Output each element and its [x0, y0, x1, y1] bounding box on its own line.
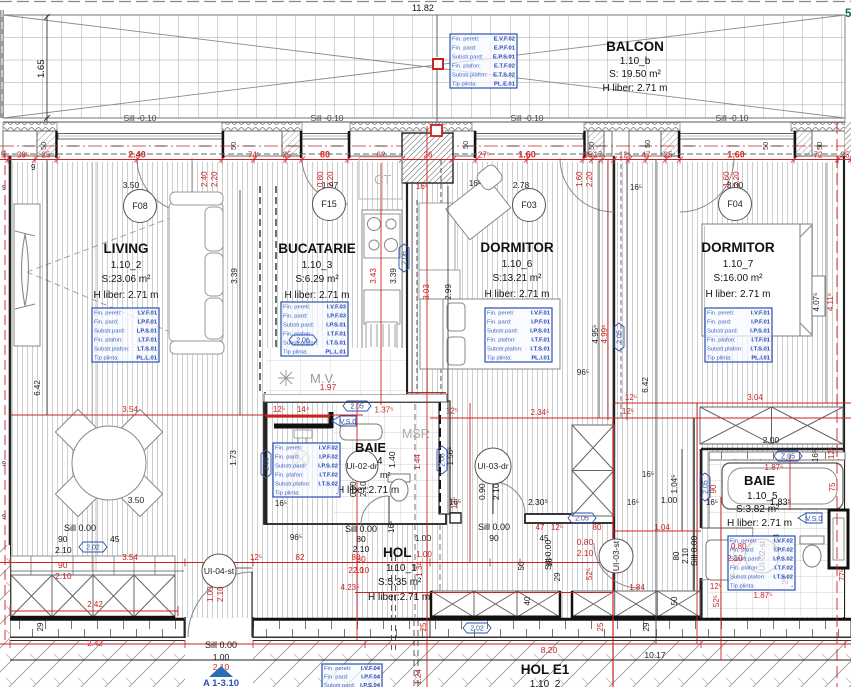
- door arc dorm6 entry: [493, 482, 525, 514]
- svg-text:3.39: 3.39: [389, 268, 398, 284]
- svg-text:PL.E.01: PL.E.01: [494, 81, 516, 87]
- MSR/dorm6 wall: [439, 401, 450, 514]
- svg-text:47: 47: [642, 151, 651, 160]
- room label HOL: [368, 545, 430, 603]
- svg-text:Tip plinta:: Tip plinta:: [730, 583, 755, 589]
- svg-text:I.P.S.01: I.P.S.01: [326, 322, 347, 328]
- MV tile floor: [266, 348, 406, 394]
- svg-text:I.P.S.04: I.P.S.04: [360, 683, 381, 687]
- svg-text:16⁵: 16⁵: [416, 182, 428, 191]
- svg-text:PL.I.01: PL.I.01: [751, 355, 770, 361]
- svg-text:2.05: 2.05: [617, 330, 624, 344]
- tv: [22, 234, 29, 306]
- svg-text:Fin. plafon:: Fin. plafon:: [452, 63, 481, 69]
- svg-text:12⁵: 12⁵: [619, 151, 631, 160]
- window tag F04: [719, 188, 752, 221]
- red line kitchen bottom: [264, 392, 446, 394]
- svg-text:I.P.S.02: I.P.S.02: [773, 556, 793, 562]
- svg-text:2.10: 2.10: [491, 483, 501, 500]
- svg-text:1.73: 1.73: [229, 450, 238, 466]
- dorm6 bottom wall: [450, 512, 461, 514]
- window tag F03: [513, 189, 546, 222]
- svg-text:25: 25: [419, 622, 428, 631]
- svg-text:3.39: 3.39: [230, 268, 239, 284]
- svg-text:2.10: 2.10: [216, 586, 225, 602]
- svg-text:0.90: 0.90: [477, 483, 487, 500]
- svg-text:2.05: 2.05: [350, 404, 364, 411]
- svg-text:S:23.06 m²: S:23.06 m²: [102, 274, 152, 285]
- svg-text:12⁵: 12⁵: [710, 582, 722, 591]
- kitchen counter: [362, 210, 402, 357]
- wardrobe left (living) top row: [11, 556, 175, 575]
- room label BAIE 4: [337, 440, 399, 496]
- window projection lines living: [91, 162, 93, 571]
- exterior ground hatch bottom: [0, 641, 851, 687]
- svg-text:50: 50: [761, 142, 770, 150]
- insulation strips: [3, 123, 57, 132]
- dining table + chairs: [55, 409, 162, 516]
- baie5 toilet: [800, 536, 824, 567]
- svg-text:H liber: 2.71 m: H liber: 2.71 m: [727, 518, 792, 529]
- svg-text:LV.F.01: LV.F.01: [138, 310, 158, 316]
- svg-text:E.P.S.01: E.P.S.01: [493, 54, 516, 60]
- tv view cone dashed: [27, 205, 218, 352]
- svg-text:52⁵: 52⁵: [712, 595, 721, 607]
- svg-text:Fin. pard:: Fin. pard:: [487, 319, 512, 325]
- svg-text:H liber: 2.71 m: H liber: 2.71 m: [602, 83, 667, 94]
- windows glazing: [58, 134, 222, 140]
- svg-text:Fin. plafon:: Fin. plafon:: [707, 337, 736, 343]
- svg-text:I.T.S.02: I.T.S.02: [773, 574, 793, 580]
- svg-text:52⁵: 52⁵: [585, 568, 594, 580]
- door tag UI-04-st: [202, 554, 236, 588]
- svg-text:H liber:2.71 m: H liber:2.71 m: [368, 592, 430, 603]
- svg-text:16⁵: 16⁵: [811, 450, 820, 462]
- svg-text:3.54: 3.54: [122, 405, 138, 414]
- svg-text:1.10_3: 1.10_3: [302, 260, 333, 271]
- svg-text:16⁵: 16⁵: [469, 179, 481, 188]
- svg-text:I.T.F.01: I.T.F.01: [327, 331, 346, 337]
- svg-text:E.T.S.02: E.T.S.02: [493, 72, 515, 78]
- dim 1.65 vertical: [46, 15, 48, 122]
- svg-text:Substr.plafon:: Substr.plafon:: [487, 346, 523, 352]
- svg-text:45: 45: [110, 534, 120, 544]
- svg-text:I.V.F.03: I.V.F.03: [327, 304, 347, 310]
- svg-text:I.V.F.02: I.V.F.02: [319, 445, 338, 451]
- svg-text:I.P.S.01: I.P.S.01: [750, 328, 771, 334]
- room label BUCATARIE: [278, 241, 356, 301]
- svg-text:5: 5: [845, 8, 851, 20]
- svg-text:Substr.pard:: Substr.pard:: [487, 328, 519, 334]
- svg-text:1.10_7: 1.10_7: [723, 259, 754, 270]
- svg-text:1.65: 1.65: [36, 60, 47, 79]
- svg-text:74⁵: 74⁵: [248, 151, 260, 160]
- svg-text:25: 25: [664, 151, 673, 160]
- svg-text:Substr.pard:: Substr.pard:: [707, 328, 739, 334]
- svg-text:25: 25: [841, 151, 850, 160]
- door arc dorm7 balcony: [680, 158, 734, 212]
- svg-text:Substr.pard:: Substr.pard:: [275, 463, 307, 469]
- living finish table: [92, 308, 159, 362]
- center marker red square: [436, 15, 438, 57]
- svg-text:75: 75: [828, 482, 837, 491]
- svg-text:Fin. pard:: Fin. pard:: [275, 454, 300, 460]
- svg-text:I.T.F.01: I.T.F.01: [751, 337, 770, 343]
- svg-text:2.42: 2.42: [87, 639, 103, 648]
- svg-text:A 1-3.10: A 1-3.10: [203, 678, 239, 687]
- entry triangle marker: [209, 666, 233, 677]
- svg-text:40: 40: [523, 596, 532, 605]
- svg-text:90: 90: [58, 560, 68, 570]
- svg-text:HOL: HOL: [383, 545, 412, 560]
- svg-text:I.T.S.01: I.T.S.01: [326, 340, 346, 346]
- svg-text:3.50: 3.50: [123, 180, 140, 190]
- door tag UI-03-dr: [475, 448, 511, 484]
- svg-text:I.T.F.02: I.T.F.02: [774, 565, 793, 571]
- wardrobe dorm7 bottom: [700, 407, 843, 444]
- svg-text:S: 19.50 m²: S: 19.50 m²: [609, 69, 661, 80]
- left exterior wall: [9, 156, 12, 618]
- svg-text:50: 50: [670, 596, 679, 605]
- svg-text:S:13.21 m²: S:13.21 m²: [493, 273, 543, 284]
- door arcs living balcony (double): [137, 158, 192, 213]
- svg-text:H liber:2.71 m: H liber:2.71 m: [337, 485, 399, 496]
- svg-text:I.P.F.03: I.P.F.03: [327, 313, 347, 319]
- svg-text:1.87⁵: 1.87⁵: [754, 591, 773, 600]
- svg-text:12⁵: 12⁵: [551, 523, 563, 532]
- svg-text:Substr.plafon:: Substr.plafon:: [730, 574, 766, 580]
- floor hatch all rooms: [11, 162, 838, 618]
- svg-text:LP.S.01: LP.S.01: [137, 328, 158, 334]
- svg-text:4: 4: [377, 456, 383, 467]
- svg-text:1.44: 1.44: [413, 454, 422, 470]
- baie4 floor drain: [293, 451, 309, 467]
- svg-text:2.40: 2.40: [128, 150, 146, 160]
- svg-text:25: 25: [596, 622, 605, 631]
- vertical red construction lines: [5, 122, 837, 687]
- svg-text:1.60: 1.60: [518, 150, 536, 160]
- svg-text:1.97: 1.97: [320, 382, 337, 392]
- svg-text:I.V.F.01: I.V.F.01: [531, 310, 551, 316]
- svg-text:Sill 0.00: Sill 0.00: [205, 640, 237, 650]
- svg-text:2.02: 2.02: [470, 626, 484, 633]
- svg-text:MSR: MSR: [402, 427, 430, 441]
- svg-text:Fin. pard:: Fin. pard:: [452, 45, 477, 51]
- svg-text:80: 80: [356, 534, 366, 544]
- svg-text:PL.L.01: PL.L.01: [136, 355, 157, 361]
- svg-text:I.P.F.02: I.P.F.02: [319, 454, 338, 460]
- svg-text:16⁵: 16⁵: [642, 470, 654, 479]
- vertical black dim lines: [47, 160, 682, 687]
- wardrobe hol right 2: [572, 591, 700, 617]
- svg-text:Fin. pereti:: Fin. pereti:: [487, 310, 515, 316]
- svg-text:BALCON: BALCON: [606, 39, 664, 54]
- svg-text:3.50: 3.50: [128, 495, 145, 505]
- svg-text:77⁵: 77⁵: [838, 569, 847, 581]
- svg-text:2.10: 2.10: [353, 565, 370, 575]
- room label DORMITOR 7: [701, 240, 774, 300]
- svg-text:50: 50: [517, 561, 526, 570]
- svg-text:Z.05: Z.05: [781, 454, 795, 461]
- svg-text:16⁵: 16⁵: [275, 499, 287, 508]
- svg-text:Substr.pard:: Substr.pard:: [324, 683, 356, 687]
- kitchen drawers: [366, 322, 397, 349]
- svg-text:PL.L.01: PL.L.01: [325, 349, 346, 355]
- baie4 tile floor: [334, 403, 446, 523]
- svg-text:10.17: 10.17: [644, 650, 666, 660]
- dorm7 bed: [702, 224, 825, 336]
- baie5 bathtub: [722, 463, 843, 509]
- door arc kitchen balcony: [302, 158, 348, 204]
- svg-text:H liber: 2.71 m: H liber: 2.71 m: [705, 289, 770, 300]
- top border dashed line: [0, 1, 851, 3]
- svg-text:3.03: 3.03: [422, 284, 431, 300]
- svg-text:Fin. pereti:: Fin. pereti:: [452, 36, 480, 42]
- svg-text:LP.F.01: LP.F.01: [138, 319, 158, 325]
- svg-text:Sill 0.00: Sill 0.00: [345, 524, 377, 534]
- svg-text:-: -: [791, 583, 793, 589]
- svg-text:1.10_b: 1.10_b: [620, 56, 651, 67]
- svg-text:Substr.plafon:: Substr.plafon:: [452, 72, 488, 78]
- svg-text:Sill 0.00: Sill 0.00: [64, 523, 96, 533]
- svg-text:29: 29: [642, 622, 651, 631]
- svg-text:Substr.plafon:: Substr.plafon:: [275, 481, 311, 487]
- svg-text:72: 72: [814, 151, 823, 160]
- svg-text:1.40: 1.40: [387, 451, 397, 468]
- sofa living: [169, 192, 224, 354]
- svg-text:I.T.F.02: I.T.F.02: [319, 472, 338, 478]
- svg-text:16⁵: 16⁵: [627, 498, 639, 507]
- entry porch gap: [185, 620, 253, 687]
- svg-text:2.10: 2.10: [55, 545, 72, 555]
- room label BAIE 5: [727, 473, 792, 529]
- svg-text:Fin. plafon:: Fin. plafon:: [94, 337, 123, 343]
- hatched pier blocks: [37, 131, 57, 156]
- svg-text:BAIE: BAIE: [744, 473, 775, 488]
- svg-text:3.54: 3.54: [122, 553, 138, 562]
- svg-text:Fin. plafon:: Fin. plafon:: [730, 565, 759, 571]
- svg-text:UI-04-st: UI-04-st: [204, 566, 235, 576]
- svg-text:2.02: 2.02: [86, 545, 100, 552]
- svg-text:6.42: 6.42: [641, 377, 650, 393]
- svg-text:1.37⁵: 1.37⁵: [375, 406, 394, 415]
- baie4 shower corner thick: [274, 424, 332, 429]
- svg-text:1.04⁵: 1.04⁵: [670, 475, 679, 494]
- svg-text:-: -: [336, 490, 338, 496]
- svg-text:Substr.pard:: Substr.pard:: [94, 328, 126, 334]
- svg-text:Substr.plafon:: Substr.plafon:: [707, 346, 743, 352]
- svg-text:29: 29: [36, 622, 45, 631]
- svg-text:Tip plinta:: Tip plinta:: [275, 490, 300, 496]
- svg-text:3.04: 3.04: [747, 393, 763, 402]
- svg-text:80: 80: [593, 523, 602, 532]
- svg-text:25: 25: [283, 151, 292, 160]
- svg-text:2.10: 2.10: [359, 481, 368, 497]
- door tag UI-03-st: [599, 539, 633, 573]
- window tag F15: [313, 188, 346, 221]
- baie4 toilet: [388, 474, 410, 501]
- svg-text:2.06: 2.06: [440, 453, 447, 467]
- svg-text:m²: m²: [380, 470, 391, 480]
- dorm6 bed: [420, 299, 560, 369]
- svg-text:I.P.F.02: I.P.F.02: [774, 547, 793, 553]
- svg-text:E.P.F.01: E.P.F.01: [494, 45, 516, 51]
- svg-text:80: 80: [356, 554, 366, 564]
- svg-text:1.24: 1.24: [414, 669, 423, 685]
- baie4 fixtures top: [294, 430, 312, 444]
- svg-text:UI-02-dr: UI-02-dr: [346, 461, 377, 471]
- svg-text:25: 25: [42, 151, 51, 160]
- right exterior wall: [843, 156, 845, 627]
- svg-text:80: 80: [672, 551, 681, 560]
- svg-text:I.V.F.01: I.V.F.01: [751, 310, 771, 316]
- MSR partition dashed: [414, 404, 416, 523]
- svg-text:H liber: 2.71 m: H liber: 2.71 m: [284, 290, 349, 301]
- svg-text:I.T.F.01: I.T.F.01: [531, 337, 550, 343]
- svg-text:HOL E1: HOL E1: [521, 662, 570, 677]
- svg-text:47: 47: [536, 523, 545, 532]
- svg-text:2.10: 2.10: [353, 544, 370, 554]
- svg-text:LT.S.01: LT.S.01: [137, 346, 157, 352]
- svg-text:Fin. pard:: Fin. pard:: [283, 313, 308, 319]
- svg-text:Fin. plafon:: Fin. plafon:: [283, 331, 312, 337]
- baie5 door leaf+arc: [701, 527, 753, 529]
- svg-text:E.V.F.02: E.V.F.02: [494, 36, 515, 42]
- top exterior wall band: [0, 122, 851, 160]
- wall piers: [3, 131, 57, 156]
- svg-text:96⁵: 96⁵: [577, 368, 589, 377]
- dorm6 desk tilted: [441, 163, 521, 240]
- door arc baie5 entry: [594, 543, 639, 588]
- svg-text:Substr.plafon:: Substr.plafon:: [94, 346, 130, 352]
- window tag F08: [124, 190, 157, 223]
- svg-text:3.43: 3.43: [369, 268, 378, 284]
- svg-text:2.10: 2.10: [577, 548, 594, 558]
- svg-text:UI-03-dr: UI-03-dr: [477, 461, 508, 471]
- door arc dorm6 balcony: [560, 158, 614, 212]
- svg-text:16⁵: 16⁵: [449, 498, 461, 507]
- svg-text:I.T.S.01: I.T.S.01: [750, 346, 770, 352]
- svg-text:2.00: 2.00: [763, 435, 780, 445]
- svg-text:12⁵: 12⁵: [273, 405, 285, 414]
- svg-text:12⁵: 12⁵: [622, 407, 634, 416]
- svg-text:16⁵: 16⁵: [387, 521, 396, 533]
- kitchen cabinet mid: [364, 290, 400, 324]
- svg-text:I.P.S.01: I.P.S.01: [530, 328, 551, 334]
- svg-text:2.34⁵: 2.34⁵: [531, 408, 550, 417]
- bottom double lines: [0, 637, 851, 639]
- baie5 sink: [706, 540, 734, 580]
- svg-text:LIVING: LIVING: [103, 241, 148, 256]
- svg-text:Tip plinta:: Tip plinta:: [452, 81, 477, 87]
- svg-text:V.S.0: V.S.0: [806, 516, 823, 523]
- svg-text:Fin. pereti:: Fin. pereti:: [283, 304, 311, 310]
- svg-text:F08: F08: [132, 201, 148, 211]
- svg-text:I.P.F.01: I.P.F.01: [751, 319, 771, 325]
- hol finish table bottom: [322, 664, 382, 690]
- window jamb marks: [57, 131, 796, 158]
- svg-text:Fin. pereti:: Fin. pereti:: [94, 310, 122, 316]
- svg-text:4.99⁶: 4.99⁶: [600, 325, 609, 344]
- svg-text:1.04: 1.04: [654, 523, 670, 532]
- left door dims living-hol: [55, 523, 120, 555]
- svg-text:1.00: 1.00: [661, 495, 678, 505]
- red dim line y415/418: [10, 414, 363, 416]
- svg-text:2.20: 2.20: [210, 171, 219, 187]
- svg-text:F04: F04: [727, 199, 743, 209]
- star symbol M.V.: [278, 370, 294, 386]
- bottom exterior wall masonry: [10, 620, 184, 637]
- svg-text:2.40: 2.40: [200, 171, 209, 187]
- svg-text:0.80: 0.80: [577, 537, 594, 547]
- baie5 tile floor: [709, 455, 844, 617]
- balcony diagonals: [3, 15, 845, 118]
- wardrobe hol right 1: [431, 591, 560, 617]
- svg-text:H liber: 2.71 m: H liber: 2.71 m: [484, 289, 549, 300]
- svg-text:1.60: 1.60: [727, 150, 745, 160]
- svg-text:2.10: 2.10: [55, 571, 72, 581]
- svg-text:16⁵: 16⁵: [630, 183, 642, 192]
- svg-text:2.06: 2.06: [296, 338, 310, 345]
- svg-text:S:6.29 m²: S:6.29 m²: [295, 274, 339, 285]
- svg-text:I.T.S.02: I.T.S.02: [318, 481, 338, 487]
- dorm7 finish table: [705, 308, 772, 362]
- svg-text:90: 90: [489, 533, 499, 543]
- svg-text:1.84: 1.84: [629, 583, 645, 592]
- svg-text:2.06: 2.06: [402, 251, 409, 265]
- baie4 finish table: [273, 443, 340, 497]
- svg-text:2.99: 2.99: [444, 284, 453, 300]
- svg-text:1.00: 1.00: [415, 533, 432, 543]
- stove: [364, 214, 400, 258]
- svg-text:Fin. pard:: Fin. pard:: [707, 319, 732, 325]
- svg-text:Fin. pereti:: Fin. pereti:: [324, 666, 352, 672]
- svg-text:Tip plinta:: Tip plinta:: [707, 355, 732, 361]
- shaft hatched block: [402, 133, 453, 183]
- svg-text:29: 29: [553, 572, 562, 581]
- svg-text:4.95⁵: 4.95⁵: [591, 325, 600, 344]
- wall axis line: [0, 145, 851, 147]
- red dim line y563: [0, 562, 612, 564]
- svg-text:1.60: 1.60: [575, 171, 584, 187]
- svg-text:DORMITOR: DORMITOR: [480, 240, 553, 255]
- right edge hatch strip: [845, 122, 851, 160]
- hol dashed projections: [414, 524, 416, 617]
- svg-text:12⁵: 12⁵: [827, 447, 836, 459]
- svg-text:Sill 0.00: Sill 0.00: [689, 535, 699, 566]
- svg-text:2.10: 2.10: [727, 554, 743, 563]
- svg-text:50: 50: [39, 142, 48, 150]
- svg-text:11.82: 11.82: [412, 3, 434, 13]
- svg-text:80: 80: [320, 150, 330, 160]
- baie4 outer walls: [264, 402, 446, 524]
- svg-text:1.00: 1.00: [206, 586, 215, 602]
- svg-text:9: 9: [31, 163, 36, 172]
- svg-text:PL.I.01: PL.I.01: [531, 355, 550, 361]
- svg-text:F15: F15: [321, 199, 337, 209]
- svg-text:62: 62: [377, 151, 386, 160]
- svg-text:2.42: 2.42: [87, 600, 103, 609]
- svg-text:Substr.pard:: Substr.pard:: [283, 322, 315, 328]
- kitchen/dormitor wall: [406, 183, 408, 402]
- svg-text:CT: CT: [374, 172, 391, 187]
- bucatarie finish table: [281, 302, 348, 356]
- svg-text:S:3.82 m²: S:3.82 m²: [736, 504, 780, 515]
- svg-text:50: 50: [643, 140, 652, 148]
- svg-text:1.00: 1.00: [416, 550, 432, 559]
- svg-text:27⁵: 27⁵: [478, 151, 490, 160]
- svg-text:50: 50: [587, 142, 596, 150]
